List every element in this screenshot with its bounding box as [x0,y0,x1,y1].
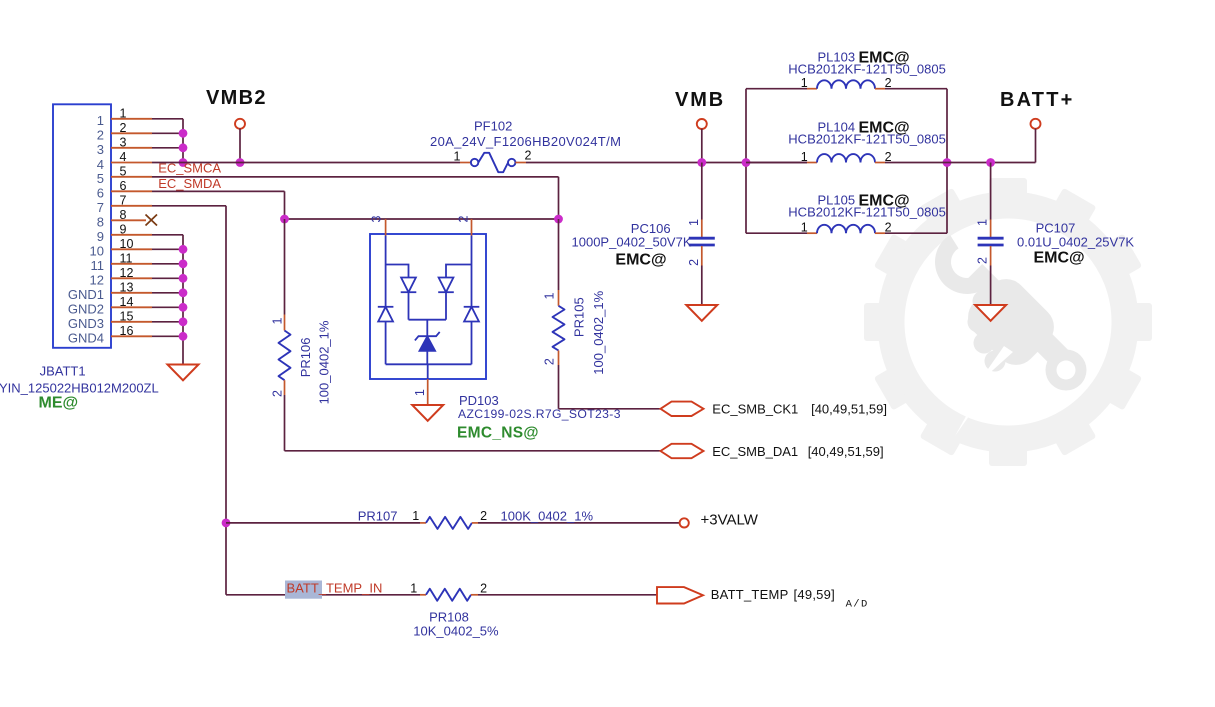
wire JBATT1 pin 12 [111,277,152,279]
diode array PD103 box [370,234,486,379]
wire PL104 row right [875,162,885,164]
wire TVS row horizontal [285,218,559,220]
wire PC107 top [990,163,992,220]
svg-text:BATT+: BATT+ [1000,89,1075,111]
svg-text:2: 2 [885,221,892,235]
svg-text:2: 2 [976,257,990,264]
wire main horizontal (VMB2 row) [152,162,460,164]
wire JBATT1 pin 10 [111,248,152,250]
svg-text:YIN_125022HB012M200ZL: YIN_125022HB012M200ZL [0,381,159,396]
svg-text:2: 2 [457,215,471,222]
wire VMB2 drop [239,129,241,163]
junction PL right [943,158,952,167]
svg-text:GND1: GND1 [68,287,104,302]
svg-text:GND4: GND4 [68,331,104,346]
svg-text:0.01U_0402_25V7K: 0.01U_0402_25V7K [1017,235,1134,250]
watermark fist and wrench [923,235,1087,436]
svg-text:A/D: A/D [846,598,869,610]
svg-text:3: 3 [97,142,104,157]
svg-text:4: 4 [97,157,104,172]
svg-text:1000P_0402_50V7K: 1000P_0402_50V7K [572,235,692,250]
no-connect X on pin 8 [146,215,158,226]
PD103 pin 3 stub [385,219,387,236]
svg-text:1: 1 [271,317,285,324]
svg-text:GND3: GND3 [68,316,104,331]
wire PL104 row left [746,162,807,164]
wire PL105 row right [875,232,885,234]
junction PL left [742,158,751,167]
wire PL bank left vertical [745,89,747,234]
svg-text:PR107: PR107 [358,509,398,524]
svg-text:[49,59]: [49,59] [794,587,836,602]
wire PC107 bottom [990,246,992,266]
svg-text:2: 2 [885,150,892,164]
svg-text:EC_SMB_CK1: EC_SMB_CK1 [712,401,798,416]
flag EC_SMB_CK1 [661,402,704,416]
svg-text:1: 1 [410,582,417,596]
wire PL bank right vertical [946,89,948,234]
svg-text:HCB2012KF-121T50_0805: HCB2012KF-121T50_0805 [788,132,946,147]
wire BATT+ drop [1035,129,1037,163]
svg-text:12: 12 [90,273,104,288]
svg-text:EC_SMB_DA1: EC_SMB_DA1 [712,444,798,459]
svg-text:[40,49,51,59]: [40,49,51,59] [811,401,887,416]
ground PD103 [412,405,443,421]
svg-text:PR106: PR106 [298,338,313,378]
PD103 internal zener [386,320,472,379]
junction right TVS row [554,215,563,224]
junction pins bus top [179,129,188,138]
resistor PR108 [426,589,471,601]
svg-text:1: 1 [413,389,427,396]
svg-text:BATT_TEMP: BATT_TEMP [711,587,789,602]
svg-text:EC_SMDA: EC_SMDA [158,176,221,191]
wire JBATT1 pin 8 [111,219,146,221]
wire PL103 row right [875,88,885,90]
svg-text:2: 2 [480,509,487,523]
wire JBATT1 pin 11 [111,263,152,265]
wire to EC_SMB_CK1 [559,408,661,410]
terminal VMB2 [235,119,245,129]
svg-text:10K_0402_5%: 10K_0402_5% [413,624,499,639]
svg-text:PD103: PD103 [459,393,499,408]
resistor PR106 [284,219,286,315]
wire JBATT1 pin 13 [111,292,152,294]
wire bus pins 9-16 to ground [182,235,184,364]
resistor PR107 [426,517,472,529]
junction VMB2 [236,158,245,167]
wire main right to BATT+ [947,162,1036,164]
wire JBATT1 pin 15 [111,321,152,323]
ground PC106 [686,305,717,321]
junction PC107 tap [986,158,995,167]
wire JBATT1 pin 9 [111,234,152,236]
wire PR107 right [472,522,478,524]
svg-text:11: 11 [91,258,105,273]
wire bus pins 1-4 vertical [182,119,184,163]
inductor PL104 [817,154,875,162]
PD103 pin 2 stub [471,219,473,236]
wire PL103 row left [746,88,807,90]
svg-text:100_0402_1%: 100_0402_1% [591,290,606,374]
svg-text:2: 2 [885,76,892,90]
wire BATT_TEMP_IN left [226,594,420,596]
junction pin7 bus at PR107 [222,519,231,528]
wire to EC_SMB_DA1 [285,450,661,452]
svg-text:BATT_TEMP_IN: BATT_TEMP_IN [287,581,383,596]
terminal VMB [697,119,707,129]
wire BATT_TEMP right [471,594,478,596]
capacitor PC107 [978,237,1004,240]
svg-text:GND2: GND2 [68,302,104,317]
svg-text:PC107: PC107 [1036,221,1076,236]
svg-text:10: 10 [90,244,104,259]
svg-text:HCB2012KF-121T50_0805: HCB2012KF-121T50_0805 [788,62,946,77]
svg-text:1: 1 [801,76,808,90]
wire EC_SMDA (pin6) [152,190,285,192]
PD103 internal top diodes [386,265,472,320]
watermark gear logo [864,178,1152,466]
wire JBATT1 pin 2 [111,132,152,134]
BATT highlight [285,581,322,599]
svg-text:9: 9 [97,229,104,244]
svg-text:EMC_NS@: EMC_NS@ [457,424,539,441]
terminal +3VALW [680,518,689,527]
svg-text:+3VALW: +3VALW [701,511,759,528]
PD103 internal left branch [378,236,394,365]
svg-text:2: 2 [543,358,557,365]
resistor PR105 [558,219,560,290]
svg-text:1: 1 [97,113,104,128]
fuse PF102 [460,162,471,164]
svg-text:5: 5 [97,171,104,186]
connector JBATT1 box [53,104,111,347]
svg-text:3: 3 [370,215,384,222]
svg-text:1: 1 [801,221,808,235]
flag EC_SMB_DA1 [661,444,704,458]
svg-text:2: 2 [687,259,701,266]
svg-text:2: 2 [480,582,487,596]
svg-text:2: 2 [271,390,285,397]
junction left TVS row [280,215,289,224]
wire VMB drop [701,129,703,163]
svg-text:2: 2 [97,128,104,143]
svg-text:7: 7 [97,200,104,215]
inductor PL105 [817,225,875,233]
terminal BATT+ [1031,119,1041,129]
wire pin7 drop [225,206,227,595]
wire JBATT1 pin 1 [111,118,152,120]
ground PC107 [975,305,1006,321]
svg-text:8: 8 [97,215,104,230]
wire PR107 left [226,522,420,524]
svg-text:100_0402_1%: 100_0402_1% [317,320,332,404]
svg-text:20A_24V_F1206HB20V024T/M: 20A_24V_F1206HB20V024T/M [430,134,621,149]
svg-text:HCB2012KF-121T50_0805: HCB2012KF-121T50_0805 [788,205,946,220]
flag BATT_TEMP [657,587,703,603]
junctions pins 10-16 [179,245,188,254]
capacitor PC106 [689,237,715,240]
svg-text:1: 1 [543,292,557,299]
svg-text:PR105: PR105 [572,297,587,337]
svg-text:EMC@: EMC@ [615,251,666,268]
svg-text:EC_SMCA: EC_SMCA [158,160,221,175]
wire PC106 bottom [701,246,703,266]
svg-text:PF102: PF102 [474,119,512,134]
wire main to VMB [526,162,807,164]
svg-text:6: 6 [97,186,104,201]
svg-text:100K_0402_1%: 100K_0402_1% [501,509,594,524]
svg-text:1: 1 [412,509,419,523]
junction VMB [697,158,706,167]
wire JBATT1 pin 16 [111,335,152,337]
svg-text:2: 2 [525,149,532,163]
svg-text:1: 1 [687,219,701,226]
svg-text:PR108: PR108 [429,609,469,624]
svg-text:1: 1 [454,150,461,164]
svg-text:[40,49,51,59]: [40,49,51,59] [808,444,884,459]
svg-text:VMB2: VMB2 [206,87,267,109]
wire JBATT1 pin 5 [111,176,152,178]
wire JBATT1 pin 7 [111,205,152,207]
wire JBATT1 pin 4 [111,162,152,164]
wire JBATT1 pin 6 [111,190,152,192]
wire PC106 top [701,163,703,220]
ground JBATT1 [168,365,199,381]
wire PL105 row left [746,232,807,234]
PD103 internal right branch [464,236,480,365]
inductor PL103 [817,80,875,88]
wire JBATT1 pin 3 [111,147,152,149]
wire JBATT1 pin 14 [111,306,152,308]
svg-text:ME@: ME@ [39,395,79,412]
svg-text:1: 1 [801,150,808,164]
svg-text:1: 1 [976,219,990,226]
PD103 pin 1 stub [427,379,429,405]
svg-text:VMB: VMB [675,89,725,111]
wire EC_SMCA (pin5) [152,176,559,178]
svg-text:JBATT1: JBATT1 [40,364,86,379]
svg-text:EMC@: EMC@ [1034,249,1085,266]
